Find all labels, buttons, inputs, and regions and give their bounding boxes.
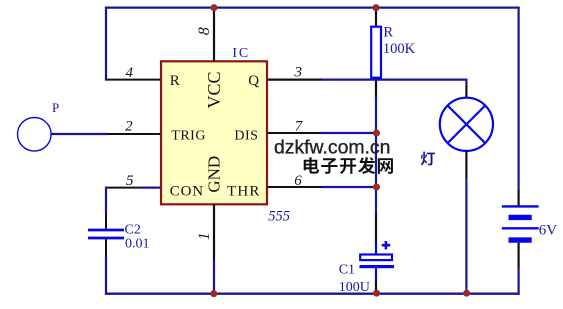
wire: pin 5 lead (CON)	[105, 187, 160, 189]
svg-text:THR: THR	[227, 184, 261, 200]
wire: Q output net to lamp	[322, 78, 468, 80]
svg-text:VCC: VCC	[204, 71, 224, 108]
svg-text:CON: CON	[170, 184, 204, 200]
wire: pin 2 lead (TRIG)	[107, 133, 160, 135]
svg-text:6V: 6V	[539, 223, 558, 239]
svg-text:100K: 100K	[383, 41, 416, 57]
svg-text:0.01: 0.01	[125, 237, 150, 252]
wire: C1 top lead	[375, 214, 377, 242]
wire: pin 4 lead (R input)	[105, 79, 160, 81]
svg-text:5: 5	[126, 173, 134, 189]
wire: top supply rail	[105, 6, 520, 8]
junction at (214,7.6)	[211, 4, 218, 11]
wire: lamp to bottom rail	[465, 178, 467, 295]
junction at (376.5,133)	[373, 130, 380, 137]
svg-text:555: 555	[268, 209, 290, 225]
wire: C2 to bottom rail	[105, 255, 107, 295]
op-amp/IC U1: 555 timer body	[161, 61, 267, 204]
junction at (376,7.6)	[373, 4, 380, 11]
wire: pin 1 lead (GND)	[213, 204, 215, 260]
wire: left vertical from top rail to pin 4	[105, 7, 107, 81]
lamp L1: circle with cross	[440, 98, 493, 151]
svg-text:3: 3	[294, 64, 303, 80]
svg-text:TRIG: TRIG	[171, 129, 206, 144]
svg-text:C1: C1	[339, 263, 355, 278]
svg-text:100U: 100U	[339, 280, 370, 295]
wire: lamp bottom lead	[465, 151, 467, 178]
capacitor C1 (electrolytic) plus mark	[382, 244, 391, 247]
wire: pin 6 lead (THR)	[267, 186, 322, 188]
watermark 电子开发网	[304, 157, 319, 173]
svg-text:8: 8	[196, 27, 213, 35]
svg-text:R: R	[170, 73, 180, 89]
svg-text:dzkfw.com.cn: dzkfw.com.cn	[274, 137, 390, 159]
node P: input terminal circle	[18, 118, 52, 152]
svg-text:4: 4	[126, 65, 134, 81]
wire: C2 bottom lead	[105, 239, 107, 255]
capacitor C1 bottom plate	[360, 265, 395, 268]
wire: C1 bottom lead to ground rail	[375, 268, 377, 279]
wire: pin 5 down to C2	[105, 187, 107, 213]
wire: C2 top lead	[105, 213, 107, 229]
wire: pin 1 to bottom rail	[213, 260, 215, 295]
svg-text:C2: C2	[125, 222, 141, 237]
svg-text:Q: Q	[248, 73, 259, 89]
svg-text:R: R	[383, 25, 393, 41]
wire: right vertical from top rail to battery	[517, 7, 519, 190]
svg-text:2: 2	[125, 119, 133, 135]
svg-text:DIS: DIS	[234, 129, 258, 144]
wire: pin 7 lead (DIS)	[267, 132, 321, 134]
label 灯 (lamp)	[421, 152, 435, 166]
wire: R bottom / pin3 node down to DIS/THR	[375, 81, 377, 98]
junction at (466.6,293.2)	[463, 290, 470, 297]
battery BT1 6V	[502, 206, 539, 240]
wire: DIS net to junction	[321, 132, 377, 134]
resistor R body	[371, 27, 381, 78]
wire: THR net to junction	[322, 186, 377, 188]
wire: pin 3 lead (Q output)	[267, 78, 322, 80]
capacitor C1 top plate	[360, 255, 392, 261]
svg-text:1: 1	[196, 232, 213, 240]
junction at (376.5,293.2)	[373, 290, 380, 297]
wire: bottom ground rail	[105, 293, 520, 295]
wire: lamp top lead	[465, 79, 467, 86]
svg-text:GND: GND	[205, 156, 224, 193]
svg-text:6: 6	[294, 173, 302, 189]
junction at (376.5,187)	[373, 184, 380, 191]
wire: battery bottom lead to bottom rail	[517, 243, 519, 268]
svg-text:IC: IC	[232, 46, 250, 61]
capacitor C2	[88, 229, 124, 232]
wire: pin 8 lead (VCC) to top rail	[213, 8, 215, 61]
wire: P to pin 2	[51, 133, 108, 135]
svg-text:P: P	[52, 100, 59, 115]
resistor R top lead	[375, 8, 377, 27]
junction at (213.8,293.6)	[210, 290, 217, 297]
